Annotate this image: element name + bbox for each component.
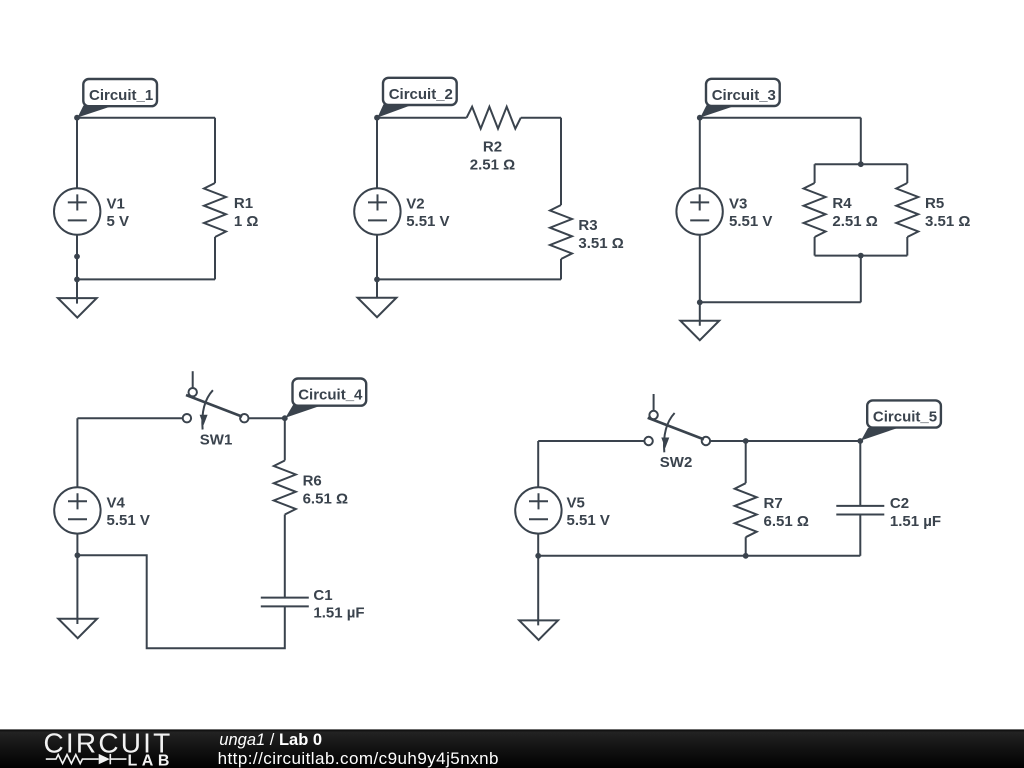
wire right branch upper <box>906 164 908 183</box>
svg-text:5.51 V: 5.51 V <box>729 213 772 230</box>
wire top rail right of R2 <box>521 117 561 119</box>
wire from node down to R6 <box>284 418 286 460</box>
resistor R2 <box>467 107 521 174</box>
svg-text:R7: R7 <box>764 495 783 512</box>
wire R7 branch upper <box>745 441 747 483</box>
node junction dot bottom rail circuit 2 <box>374 277 380 283</box>
wire parallel top bar <box>815 163 908 165</box>
node junction dot at R7 bottom <box>743 553 749 559</box>
wire below V3 <box>699 235 701 326</box>
wire bottom rail circuit 3 <box>700 301 861 303</box>
svg-text:C2: C2 <box>890 495 909 512</box>
svg-text:R3: R3 <box>578 217 597 234</box>
capacitor C1 <box>261 587 365 622</box>
resistor R6 <box>274 461 348 515</box>
node junction dot below V4 <box>75 552 81 558</box>
wire left branch upper <box>814 164 816 183</box>
wire left rail circuit 1 <box>76 118 78 189</box>
wire R7 branch lower <box>745 537 747 556</box>
voltage source V2 <box>354 188 449 234</box>
node junction dot top-left circuit 2 <box>374 115 380 121</box>
svg-text:5.51 V: 5.51 V <box>107 512 150 529</box>
capacitor C2 <box>836 495 941 530</box>
node junction dot top of parallel pair <box>858 161 864 167</box>
wire below V2 <box>376 235 378 298</box>
wire top rail circuit 5 <box>538 440 644 442</box>
wire below V4 <box>76 534 78 624</box>
svg-text:1.51 µF: 1.51 µF <box>890 513 941 530</box>
svg-text:Circuit_2: Circuit_2 <box>389 86 453 103</box>
wire right rail upper circuit 2 <box>560 118 562 205</box>
svg-text:Circuit_4: Circuit_4 <box>298 387 363 404</box>
resistor R4 <box>804 183 878 237</box>
resistor R5 <box>896 183 970 237</box>
voltage source V5 <box>515 487 610 533</box>
wire right rail lower circuit 1 <box>214 237 216 279</box>
node junction dot bottom-left circuit 3 <box>697 299 703 305</box>
node junction dot below V5 <box>535 553 541 559</box>
svg-text:unga1 / Lab 0: unga1 / Lab 0 <box>219 731 322 749</box>
node junction dot below V1 <box>74 254 80 260</box>
wire C2 branch lower <box>859 515 861 556</box>
svg-text:2.51 Ω: 2.51 Ω <box>832 213 877 230</box>
voltage source V1 <box>54 188 129 234</box>
svg-text:SW1: SW1 <box>200 432 233 449</box>
wire right branch lower <box>906 237 908 256</box>
wire bottom rail circuit 5 <box>538 555 860 557</box>
resistor R7 <box>735 483 809 537</box>
svg-text:http://circuitlab.com/c9uh9y4j: http://circuitlab.com/c9uh9y4j5nxnb <box>218 749 499 768</box>
ground circuit 4 <box>58 619 97 639</box>
svg-text:V5: V5 <box>567 494 585 511</box>
resistor R1 <box>204 183 258 237</box>
wire parallel bottom bar <box>815 255 908 257</box>
node label Circuit_3 <box>700 79 779 118</box>
node junction dot top-left circuit 3 <box>697 115 703 121</box>
svg-text:3.51 Ω: 3.51 Ω <box>578 235 623 252</box>
wire right rail upper circuit 1 <box>214 118 216 183</box>
node A1 junction dot <box>74 115 80 121</box>
wire from SW2 to C2 node <box>710 440 860 442</box>
svg-text:6.51 Ω: 6.51 Ω <box>764 513 809 530</box>
ground circuit 5 <box>519 620 558 640</box>
wire right rail lower circuit 2 <box>560 259 562 279</box>
wire below C1 down and left <box>77 555 284 648</box>
wire from SW1 to node <box>249 417 285 419</box>
svg-text:V1: V1 <box>107 196 125 213</box>
node label Circuit_5 <box>861 400 941 440</box>
svg-text:R5: R5 <box>925 195 944 212</box>
footer bar <box>0 729 1024 768</box>
svg-text:5.51 V: 5.51 V <box>406 213 449 230</box>
wire bottom rail circuit 2 <box>377 278 561 280</box>
svg-text:V2: V2 <box>406 196 424 213</box>
svg-text:R4: R4 <box>832 195 852 212</box>
wire left rail circuit 2 <box>376 118 378 189</box>
wire C2 branch upper <box>859 441 861 506</box>
wire left rail circuit 4 <box>76 418 78 487</box>
node label Circuit_1 <box>78 79 158 118</box>
svg-text:Circuit_1: Circuit_1 <box>89 87 153 104</box>
node junction dot at C2 top <box>857 438 863 444</box>
switch SW1 <box>183 371 249 448</box>
wire below V1 <box>76 235 78 304</box>
ground circuit 2 <box>358 298 397 318</box>
wire left branch lower <box>814 237 816 256</box>
svg-text:3.51 Ω: 3.51 Ω <box>925 213 970 230</box>
svg-text:1 Ω: 1 Ω <box>234 213 259 230</box>
node junction dot at R7 top <box>743 438 749 444</box>
wire from R6 down to C1 <box>284 515 286 598</box>
ground circuit 3 <box>680 321 719 341</box>
wire top rail circuit 3 <box>700 117 861 119</box>
voltage source V4 <box>54 487 150 533</box>
svg-text:V3: V3 <box>729 196 747 213</box>
wire down from parallel pair <box>860 256 862 303</box>
svg-text:5.51 V: 5.51 V <box>567 512 610 529</box>
node label Circuit_2 <box>378 78 457 118</box>
svg-text:Circuit_5: Circuit_5 <box>873 408 937 425</box>
svg-text:V4: V4 <box>107 494 126 511</box>
svg-text:6.51 Ω: 6.51 Ω <box>303 490 348 507</box>
svg-text:2.51 Ω: 2.51 Ω <box>470 156 515 173</box>
wire down to parallel pair <box>860 118 862 165</box>
node junction dot bottom of parallel pair <box>858 253 864 259</box>
wire below V5 <box>537 534 539 626</box>
svg-text:LAB: LAB <box>128 753 174 768</box>
svg-text:C1: C1 <box>313 587 332 604</box>
wire bottom rail circuit 1 <box>77 278 215 280</box>
resistor R3 <box>550 205 624 259</box>
node junction dot at bottom rail circuit 1 <box>74 277 80 283</box>
svg-text:R2: R2 <box>483 139 502 156</box>
CircuitLab logo resistor-diode strike <box>46 754 127 764</box>
svg-text:R6: R6 <box>303 472 322 489</box>
ground circuit 1 <box>58 298 97 318</box>
svg-text:5 V: 5 V <box>107 213 130 230</box>
wire top rail circuit 1 <box>77 117 215 119</box>
svg-text:1.51 µF: 1.51 µF <box>313 605 364 622</box>
node junction dot top circuit 4 <box>282 415 288 421</box>
svg-text:SW2: SW2 <box>660 454 693 471</box>
wire top rail circuit 4 <box>77 417 182 419</box>
node label Circuit_4 <box>285 379 366 418</box>
wire left rail circuit 5 <box>537 441 539 487</box>
voltage source V3 <box>676 188 772 234</box>
wire top rail left of R2 <box>377 117 467 119</box>
wire left rail circuit 3 <box>699 118 701 189</box>
svg-text:R1: R1 <box>234 195 253 212</box>
svg-text:Circuit_3: Circuit_3 <box>712 87 776 104</box>
switch SW2 <box>644 394 710 471</box>
